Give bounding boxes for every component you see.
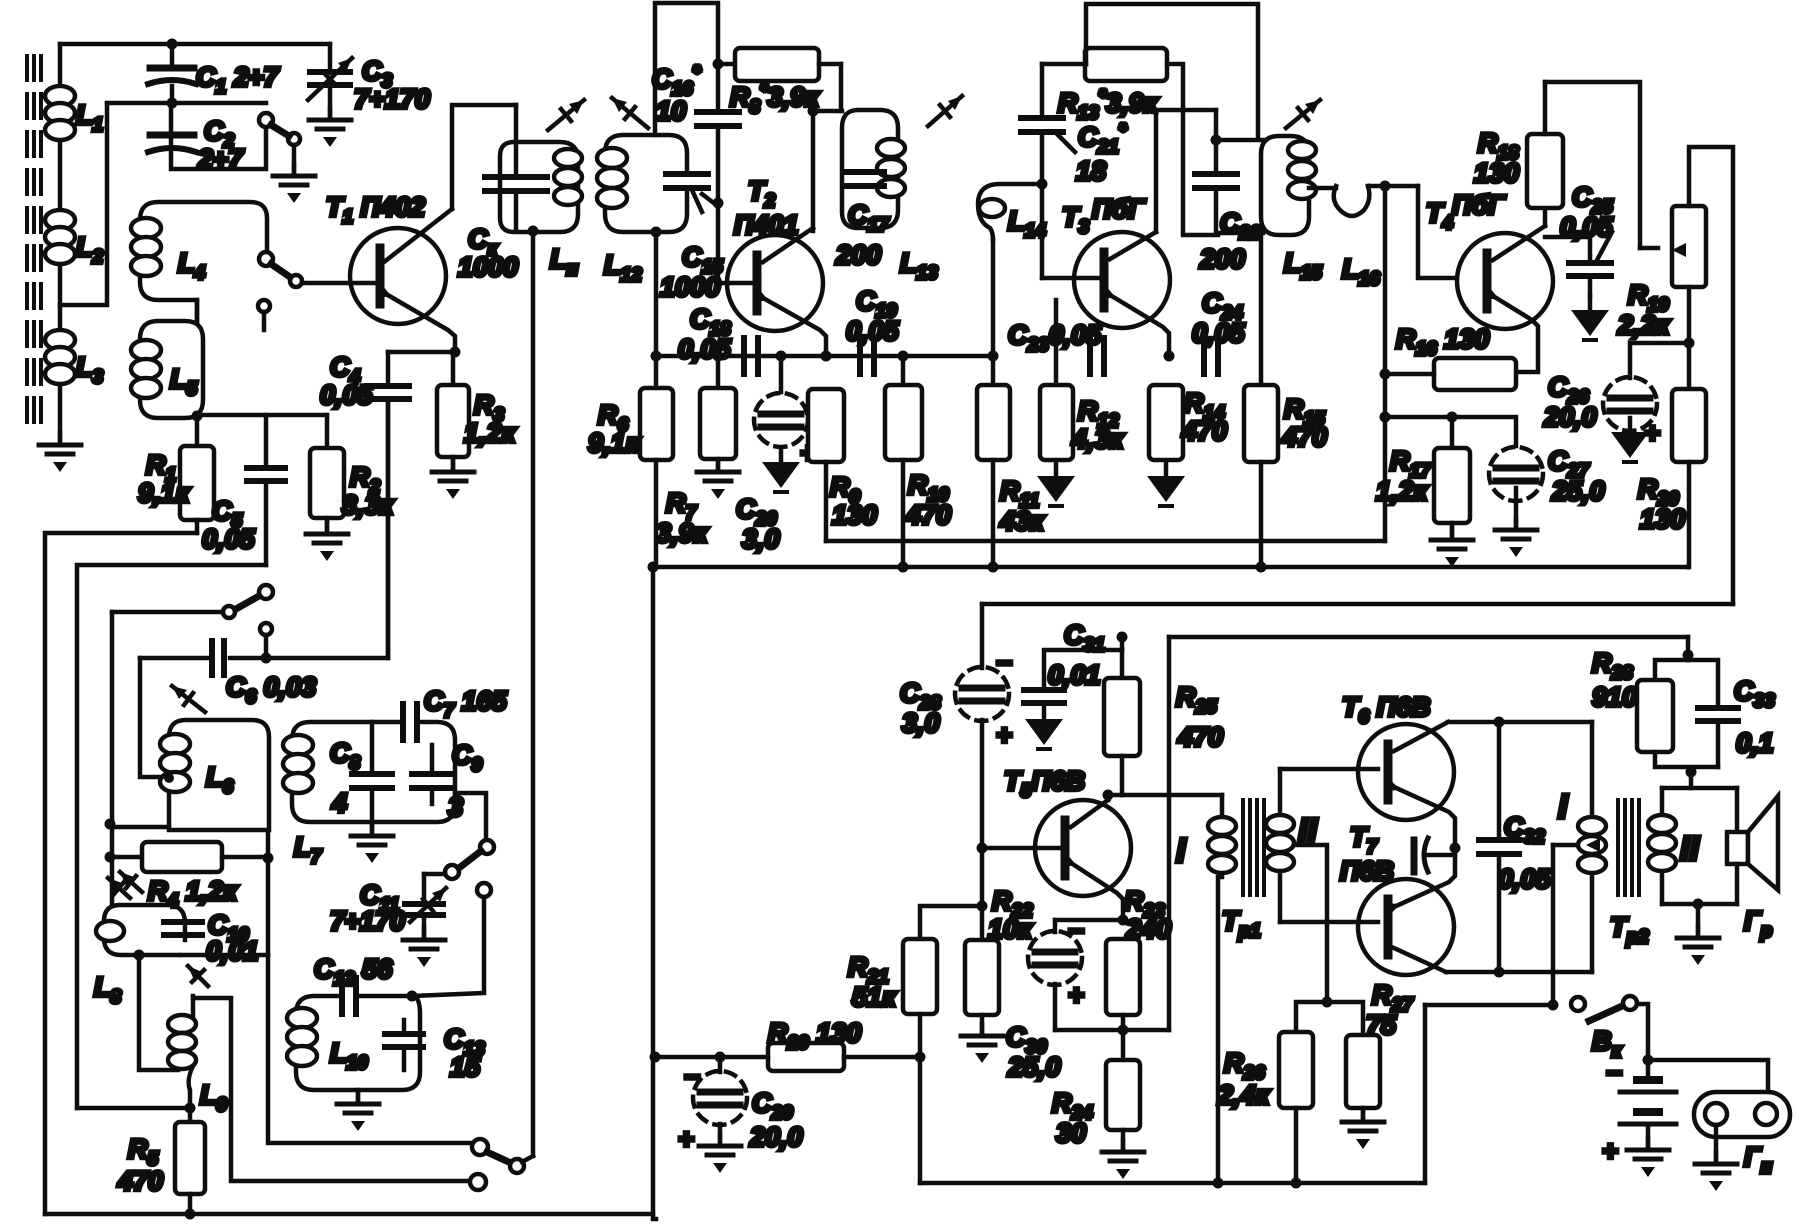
svg-text:130: 130 xyxy=(1640,504,1685,534)
ground (C3) xyxy=(309,108,351,147)
T2 emitter xyxy=(753,289,826,356)
T4 collector xyxy=(1493,208,1545,260)
resistor R27 75 xyxy=(1346,980,1414,1118)
resistor R10 470 xyxy=(885,351,951,568)
node L6 coil tap xyxy=(164,773,174,783)
capacitor C23 0,05 (inline bus) xyxy=(1008,320,1104,374)
svg-text:3: 3 xyxy=(448,792,463,822)
svg-text:1,2к: 1,2к xyxy=(1376,476,1429,506)
detector rail y604 xyxy=(982,602,1733,607)
svg-text:18: 18 xyxy=(1076,156,1106,186)
wire tap split xyxy=(1296,1002,1363,1035)
svg-text:2,2к: 2,2к xyxy=(1617,310,1671,340)
tank L11 (Ln) xyxy=(500,100,584,280)
capacitor C3 7+170 xyxy=(308,44,430,118)
wire T4 base xyxy=(1418,186,1457,278)
resistor R12 4,3k xyxy=(1040,300,1125,460)
node Tp1 primary bottom on bus xyxy=(1213,1178,1224,1189)
svg-text:П6В: П6В xyxy=(1340,856,1394,886)
jack Gn xyxy=(1694,1092,1790,1178)
svg-text:−: − xyxy=(1646,314,1662,344)
svg-text:I: I xyxy=(1176,832,1187,870)
node L10 top right xyxy=(407,991,418,1002)
node R4 right / riser x268 xyxy=(263,853,274,864)
wire L8 to L9 xyxy=(139,955,178,1070)
transistor T7 PBV xyxy=(1340,822,1454,975)
svg-text:7+170: 7+170 xyxy=(354,84,430,114)
node L12 bottom riser xyxy=(654,232,659,388)
svg-text:200: 200 xyxy=(835,240,881,270)
wire C6 left drop to L6 xyxy=(140,658,172,777)
T3 collector xyxy=(1110,110,1216,259)
resistor R2 3,3k xyxy=(310,415,395,530)
wire audio input y1057 xyxy=(653,1055,768,1060)
wire top rail y44 xyxy=(60,42,330,47)
T1 collector wire xyxy=(384,105,516,262)
node C15 tail xyxy=(702,194,715,204)
node L5 bottom xyxy=(192,411,203,422)
node R5 bottom bus xyxy=(185,1209,196,1220)
node top rail / C1 xyxy=(167,39,178,50)
svg-text:I: I xyxy=(1558,788,1569,826)
svg-text:0,05: 0,05 xyxy=(1192,318,1246,348)
svg-text:+: + xyxy=(996,720,1012,750)
wire top bracket C16/L12 xyxy=(655,3,718,135)
svg-text:0,1: 0,1 xyxy=(1736,728,1774,758)
svg-text:−: − xyxy=(1068,916,1084,946)
wire y415 to R2 xyxy=(197,413,327,418)
ground (R3) xyxy=(432,460,474,499)
T7 emitter xyxy=(1384,848,1455,916)
svg-text:470: 470 xyxy=(1177,722,1223,752)
node R10 bus2 xyxy=(898,562,909,573)
capacitor C33 0,1 xyxy=(1698,676,1775,767)
wire y1060 to jack xyxy=(1648,1060,1768,1097)
wire riser x268 (L6 bottom to L8) xyxy=(180,830,268,955)
svg-text:−: − xyxy=(996,648,1012,678)
capacitor C31 0,01 xyxy=(1024,620,1128,703)
capacitor C30 25,0 (electrolytic) xyxy=(1006,916,1084,1082)
svg-text:240: 240 xyxy=(1125,914,1171,944)
svg-text:3,0: 3,0 xyxy=(902,708,940,738)
svg-text:II: II xyxy=(1680,830,1700,868)
svg-text:0,05: 0,05 xyxy=(320,380,374,410)
capacitor C17 200 xyxy=(835,172,890,270)
capacitor C13 15 xyxy=(385,1020,485,1082)
resistor R17 1,2k xyxy=(1376,412,1470,537)
coil L5 (tank) xyxy=(131,321,203,418)
svg-text:10: 10 xyxy=(656,96,686,126)
bus2 right end corner xyxy=(1686,565,1691,570)
capacitor C1 2÷7 xyxy=(148,44,280,103)
ground (C29) xyxy=(699,1134,741,1173)
band switch S2 (C5 tap) xyxy=(223,585,273,618)
svg-text:+: + xyxy=(1068,980,1084,1010)
svg-text:−: − xyxy=(1606,1058,1622,1088)
svg-text:П401: П401 xyxy=(734,210,798,240)
open contact above C6 xyxy=(260,623,272,658)
T3 base wire xyxy=(1042,276,1104,281)
resistor R3 1,2k xyxy=(437,352,517,468)
ground (L10) xyxy=(337,1090,379,1131)
resistor R7 3,9k xyxy=(656,351,736,549)
svg-text:130: 130 xyxy=(832,500,877,530)
ground (R2) xyxy=(306,522,348,561)
tank L6 xyxy=(160,686,269,830)
svg-text:2,4к: 2,4к xyxy=(1217,1080,1271,1110)
node bus2 left xyxy=(648,562,659,573)
node C29 xyxy=(715,1052,726,1063)
svg-text:910: 910 xyxy=(1592,682,1637,712)
potentiometer R19 2,2k xyxy=(1617,206,1706,340)
ground (battery) xyxy=(1627,1138,1669,1177)
resistor R25 470 xyxy=(1104,650,1223,795)
open contact below L4 xyxy=(258,300,270,330)
wire y103 (C2 top) xyxy=(107,101,266,106)
ground arrow (C31) xyxy=(1025,705,1063,749)
signal bus y356 xyxy=(655,354,993,359)
capacitor C15 1000 xyxy=(660,174,723,302)
capacitor C18 0,05 (inline bus) xyxy=(678,304,758,374)
transistor T6 PBV xyxy=(1342,692,1454,820)
resistor R5 470 xyxy=(117,1105,205,1214)
capacitor C21 18 xyxy=(1021,64,1128,278)
node L9/R5 xyxy=(185,1103,196,1114)
svg-text:2÷7: 2÷7 xyxy=(197,144,245,174)
ground arrow (R14) xyxy=(1147,462,1185,506)
wire Tp1 center tap xyxy=(1294,845,1327,1002)
coil L14 xyxy=(978,184,1046,242)
open contact (L10 select) xyxy=(412,883,491,996)
node R11 bus2 xyxy=(988,562,999,573)
supply bus2 y567 xyxy=(653,565,1688,570)
node bus x993 xyxy=(988,351,999,362)
svg-text:0,01: 0,01 xyxy=(1048,660,1101,690)
svg-text:4: 4 xyxy=(331,788,347,818)
resistor R11 43k xyxy=(977,356,1045,567)
wire bottom bus left xyxy=(45,1212,653,1217)
ground (Tp2 secondary) xyxy=(1677,904,1719,965)
ground (R7) xyxy=(697,460,739,499)
capacitor C29 20,0 (electrolytic) xyxy=(678,1057,803,1154)
coil L16 xyxy=(1334,186,1418,290)
svg-text:1000: 1000 xyxy=(458,252,518,282)
svg-text:25,0: 25,0 xyxy=(1551,476,1605,506)
wire riser x107 to L2/L3 tap xyxy=(60,103,107,305)
capacitor C4 0,05 xyxy=(320,352,409,658)
svg-text:3,0: 3,0 xyxy=(742,524,780,554)
node C22 L15 xyxy=(1211,135,1222,146)
T5 emitter xyxy=(1061,854,1123,920)
T2 collector xyxy=(763,228,813,262)
resistor R16 130 xyxy=(1380,324,1517,390)
svg-text:ПбГ: ПбГ xyxy=(1452,190,1506,220)
tank L8 with C10 xyxy=(94,878,185,1008)
svg-text:470: 470 xyxy=(117,1166,163,1196)
wire L9 top to contact B riser xyxy=(193,998,470,1181)
capacitor C16 10 xyxy=(652,63,739,126)
open contact B xyxy=(470,1174,486,1190)
capacitor C19 0,05 (inline bus) xyxy=(846,286,900,374)
emitter junction symbol xyxy=(1414,838,1455,872)
svg-text:130: 130 xyxy=(1474,158,1519,188)
wire y827 to L6 xyxy=(110,825,169,830)
ground arrow (C20) xyxy=(762,448,800,492)
resistor R9 130 xyxy=(808,389,877,541)
svg-text:1000: 1000 xyxy=(660,272,720,302)
wire riser x1425 xyxy=(1423,1005,1428,1183)
node bus x655 xyxy=(651,351,662,362)
open contact A xyxy=(472,1139,488,1155)
capacitor C5 0,05 xyxy=(202,415,285,565)
capacitor C32 0,05 xyxy=(1479,717,1552,978)
resistor R18 130 xyxy=(1474,82,1563,208)
coil L2 xyxy=(45,210,104,268)
capacitor C10 0,01 xyxy=(164,910,259,986)
capacitor C9 3 xyxy=(412,740,483,822)
svg-text:ПбГ: ПбГ xyxy=(1092,194,1146,224)
wire y612 xyxy=(112,610,223,615)
resistor R24 30 xyxy=(1052,1030,1140,1148)
wire Tp1 sec top to T6 base xyxy=(1280,767,1378,772)
resistor R13 3,9k xyxy=(1058,48,1218,235)
svg-text:−: − xyxy=(684,1062,700,1092)
wire y904 speaker bottom xyxy=(1662,902,1737,907)
node T1 emitter/C4/R3 xyxy=(450,347,461,358)
node emitter xyxy=(1118,915,1129,926)
wire emitter to C30 xyxy=(1055,918,1123,923)
capacitor C24 0,05 (inline bus) xyxy=(1192,288,1246,374)
node R8 left xyxy=(713,59,724,70)
svg-text:200: 200 xyxy=(1199,244,1245,274)
svg-text:51к: 51к xyxy=(852,982,897,1012)
band switch SW3 (L7 tap) xyxy=(424,793,494,879)
wire R19 bottom node xyxy=(1687,287,1692,389)
svg-text:470: 470 xyxy=(1281,422,1327,452)
svg-text:20,0: 20,0 xyxy=(749,1122,803,1152)
resistor R21 51k xyxy=(848,901,988,1058)
transformer Tp2 xyxy=(1558,722,1700,972)
wire y1030 node xyxy=(1055,1028,1169,1033)
capacitor C7 165 (inline) xyxy=(403,686,508,740)
svg-text:15: 15 xyxy=(450,1052,481,1082)
T3 emitter xyxy=(1100,286,1169,356)
T6 collector xyxy=(1394,722,1592,751)
svg-text:0,05: 0,05 xyxy=(202,524,256,554)
node R21 bottom xyxy=(915,1052,926,1063)
svg-text:+: + xyxy=(1602,1136,1618,1166)
wire y565 second rail xyxy=(77,565,266,1108)
node tap split xyxy=(1322,997,1333,1008)
T1 emitter xyxy=(376,285,455,352)
wire collector node to Tp1 xyxy=(1108,793,1222,798)
ground (L7 tank) xyxy=(351,822,393,863)
ferrite antenna rod xyxy=(27,56,41,422)
svg-text:30: 30 xyxy=(1056,1118,1086,1148)
wire emitter node xyxy=(388,350,455,355)
ground (C11) xyxy=(403,928,445,967)
svg-text:75: 75 xyxy=(1366,1010,1397,1040)
svg-text:9,1к: 9,1к xyxy=(138,478,191,508)
AGC bus y541 xyxy=(826,539,1385,544)
ground arrow (C25) xyxy=(1571,296,1609,340)
transistor T4 PBG xyxy=(1426,190,1553,329)
resistor R22 10k xyxy=(965,848,1033,1032)
wire y111 / riser x813 xyxy=(813,111,842,231)
capacitor C25 0,05 xyxy=(1560,182,1614,296)
wire R18 top bracket xyxy=(1545,82,1640,248)
ground (R17) xyxy=(1431,528,1473,567)
resistor R1 9,1k xyxy=(138,418,214,533)
capacitor C11 7÷170 xyxy=(330,874,446,936)
svg-text:0,05: 0,05 xyxy=(1498,864,1552,894)
svg-text:7÷170: 7÷170 xyxy=(330,906,405,936)
svg-text:3,9к: 3,9к xyxy=(656,518,709,548)
ground (jack) xyxy=(1695,1152,1737,1191)
wire riser x267 down to band switch xyxy=(268,955,472,1143)
svg-text:1,2к: 1,2к xyxy=(464,418,517,448)
ground (R24) xyxy=(1102,1140,1144,1179)
battery xyxy=(1602,1058,1676,1166)
wire riser x841 (R8 to L13 tank) xyxy=(839,64,844,111)
transistor T1 P402 xyxy=(326,192,446,324)
node R28/C33 bottom xyxy=(1686,767,1697,778)
ground (C27) xyxy=(1495,488,1537,557)
wire riser x653 lower xyxy=(653,567,656,1219)
ground arrow (C26) xyxy=(1611,418,1649,462)
resistor R23 240 xyxy=(1106,886,1171,1030)
wire top bracket R13/L15 xyxy=(1086,4,1258,136)
svg-text:9,1к: 9,1к xyxy=(588,428,641,458)
wire riser x920 to bottom bus xyxy=(918,1057,923,1183)
svg-text:20,0: 20,0 xyxy=(1543,402,1597,432)
tank L13 with C17 xyxy=(842,96,962,284)
svg-text:0,01: 0,01 xyxy=(206,936,259,966)
wire collector to C25 xyxy=(1545,237,1590,261)
capacitor C26 20,0 (electrolytic) xyxy=(1543,314,1689,448)
wire Tp1 sec bottom to T7 base xyxy=(1280,920,1378,925)
node battery to jack xyxy=(1643,1055,1654,1066)
T5 base wire xyxy=(982,846,1065,851)
transistor T2 P401 xyxy=(727,176,823,331)
wire T1 base xyxy=(302,281,381,286)
ground (antenna) xyxy=(39,433,81,472)
capacitor C20 3,0 (electrolytic) xyxy=(736,351,816,555)
resistor R26 2,4k xyxy=(1217,1032,1313,1183)
resistor R6 9,1k xyxy=(588,388,673,567)
node T2 emitter bus xyxy=(821,351,832,362)
transistor T5 PBV xyxy=(1004,766,1131,896)
node R15 bus2 xyxy=(1256,562,1267,573)
node L14 top xyxy=(1037,179,1048,190)
wire riser x718 (C16 to base) xyxy=(716,126,721,283)
svg-text:43к: 43к xyxy=(999,506,1045,536)
node L11 bottom xyxy=(528,226,539,237)
transformer Tp1 xyxy=(1176,769,1318,1183)
coil L1 xyxy=(45,44,103,440)
wire riser x112 xyxy=(110,612,115,905)
svg-text:0,05: 0,05 xyxy=(1560,212,1614,242)
capacitor C22 200 xyxy=(1195,110,1263,274)
node base riser x1385 xyxy=(1380,181,1391,192)
ground arrow (R12) xyxy=(1037,462,1075,506)
capacitor C6 0,03 xyxy=(140,399,388,708)
coil L4 (tank) xyxy=(131,202,267,321)
svg-text:470: 470 xyxy=(1181,416,1227,446)
wire riser x1385 (base to AGC bus) xyxy=(1383,186,1388,541)
node emitters xyxy=(1450,843,1461,854)
node R26 bottom bus xyxy=(1291,1178,1302,1189)
svg-text:+: + xyxy=(678,1124,694,1154)
T7 collector xyxy=(1394,948,1592,972)
supply rail y637 xyxy=(1169,635,1688,640)
svg-text:470: 470 xyxy=(905,500,951,530)
svg-text:10к: 10к xyxy=(988,914,1033,944)
T4 emitter xyxy=(1483,287,1538,372)
transistor T3 PBG xyxy=(1062,194,1170,328)
wire y1005 switch row xyxy=(1425,1003,1553,1008)
tank L10 with C13 xyxy=(287,996,420,1090)
resistor R20 130 xyxy=(1638,389,1706,567)
wire riser x1169 xyxy=(1167,637,1172,1030)
resistor R8 3,9k xyxy=(718,48,841,118)
coil L9 xyxy=(168,996,228,1116)
wire L15 to L16 xyxy=(1309,186,1336,191)
tank L12 with C15 xyxy=(597,98,687,286)
wire Tp2 center tap to switch xyxy=(1553,838,1600,1005)
tank L7 with C8 C9 xyxy=(283,722,455,868)
node T3 emitter bus xyxy=(1164,351,1175,362)
node L8 bottom xyxy=(134,950,145,961)
resistor R15 470 xyxy=(1244,235,1327,567)
resistor R14 470 xyxy=(1149,385,1227,460)
speaker Gr xyxy=(1727,788,1778,942)
resistor R28 910 xyxy=(1592,637,1718,788)
band switch (L4 to T1 base) xyxy=(259,252,302,287)
band switch contact (C2) xyxy=(259,113,300,172)
capacitor C14 (Ck) 1000 xyxy=(458,105,547,282)
ground (C2 switch) xyxy=(273,164,315,203)
node C6 wire xyxy=(261,653,272,664)
capacitor C27 25,0 (electrolytic) xyxy=(1489,446,1605,506)
wire y1108 xyxy=(77,1106,190,1111)
capacitor C28 3,0 (electrolytic) xyxy=(900,604,1012,848)
switch Vk xyxy=(1571,996,1648,1076)
T6 emitter xyxy=(1384,778,1455,848)
resistor R4 1,2k xyxy=(110,842,268,912)
coil L3 xyxy=(45,330,104,388)
svg-text:4,3к: 4,3к xyxy=(1071,424,1125,454)
resistor R29 130 xyxy=(768,1018,920,1071)
svg-text:0,05: 0,05 xyxy=(678,334,732,364)
capacitor C8 4 xyxy=(330,722,392,822)
wire y788 speaker top xyxy=(1662,786,1737,791)
tank L15 xyxy=(1261,100,1322,284)
wire R19 top to right rail xyxy=(1689,147,1733,604)
band switch lever (bottom) xyxy=(487,1152,533,1173)
svg-text:25,0: 25,0 xyxy=(1007,1052,1061,1082)
T2 base wire xyxy=(718,281,757,286)
wire x110 node row xyxy=(105,819,116,830)
wire y417 (C27/R17) xyxy=(1385,417,1516,446)
ground (R27) xyxy=(1342,1110,1384,1149)
T5 collector xyxy=(1071,795,1108,827)
wire L14 to bus xyxy=(991,240,996,356)
svg-text:0,05: 0,05 xyxy=(846,316,900,346)
capacitor C2 2÷7 (box) xyxy=(148,103,266,174)
wire long riser x533 (L11 to band switch) xyxy=(531,231,536,1156)
capacitor C12 56 (inline) xyxy=(314,954,393,1014)
